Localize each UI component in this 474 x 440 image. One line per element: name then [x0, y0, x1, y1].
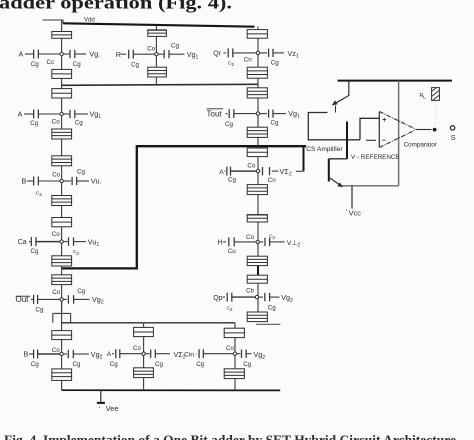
input R wire: [121, 53, 127, 55]
node island row5: [60, 298, 63, 301]
wire column-3b vertical: [234, 323, 236, 390]
input Cin wire: [196, 353, 199, 355]
svg-text:A: A: [18, 109, 23, 118]
wire R-cap to node: [134, 53, 155, 55]
svg-text:Co: Co: [246, 234, 254, 241]
tunnel junction J21: [247, 256, 267, 265]
tunnel junction J16: [247, 88, 267, 98]
node island col2b: [142, 352, 145, 355]
tunnel junction J25: [134, 368, 154, 378]
svg-text:B: B: [24, 350, 29, 359]
svg-text:CS Amplifier: CS Amplifier: [306, 146, 343, 153]
ground rail (bottom): [62, 389, 281, 391]
input Ca (row4) wire: [29, 241, 31, 243]
Vee supply symbol: [100, 390, 102, 402]
node island H: [256, 240, 259, 243]
wire to Vg2 col4: [270, 296, 280, 298]
svg-text:H: H: [218, 240, 223, 247]
tunnel junction J4: [52, 129, 72, 139]
tunnel junction J7: [52, 218, 72, 227]
svg-text:Cg: Cg: [271, 59, 279, 66]
svg-text:L: L: [423, 94, 426, 100]
capacitor Cg (A bottom): [115, 349, 117, 358]
tunnel junction J18: [247, 148, 267, 157]
svg-text:Cg: Cg: [73, 61, 81, 68]
wire to node col2b: [120, 353, 142, 355]
svg-text:Vcc: Vcc: [349, 209, 362, 218]
svg-text:2: 2: [231, 62, 234, 68]
svg-text:Co: Co: [52, 171, 60, 178]
transistor M1 arrow: [333, 96, 349, 105]
tunnel junction J9: [52, 275, 72, 285]
svg-text:Comparator: Comparator: [404, 142, 437, 149]
wire to Vg row1: [75, 53, 86, 55]
wire M2 drain (thick): [328, 159, 330, 182]
input B (row3) wire: [27, 180, 33, 182]
svg-text:Qr: Qr: [213, 51, 221, 58]
node island Qp: [255, 295, 258, 298]
wire to node row5: [38, 298, 60, 300]
capacitor Cg (A row2): [33, 110, 35, 119]
svg-text:A: A: [107, 351, 112, 358]
input A (mid) wire: [225, 170, 226, 172]
tunnel junction J8: [52, 256, 72, 266]
capacitor Cg (A row1): [33, 50, 35, 59]
tunnel junction J11: [52, 369, 72, 381]
wire to Vg2 row6: [73, 353, 89, 355]
svg-text:Qp: Qp: [213, 295, 222, 302]
svg-text:Vu.: Vu.: [91, 177, 102, 186]
svg-text:2: 2: [76, 251, 79, 257]
svg-text:Cb: Cb: [246, 287, 254, 294]
capacitor C2 (B row3): [33, 177, 35, 186]
capacitor Cg (Vg2 col4): [259, 296, 263, 298]
wire to Vz1: [273, 52, 284, 54]
wire to Vp2: [270, 241, 285, 243]
tunnel junction J13: [148, 67, 167, 77]
tunnel junction J12: [148, 30, 167, 37]
svg-text:S: S: [451, 133, 456, 142]
tunnel junction J3: [52, 89, 72, 98]
wire to node row1: [38, 53, 59, 55]
svg-text:2: 2: [39, 192, 42, 198]
svg-text:Co: Co: [52, 347, 60, 354]
wire M2 source to right: [342, 185, 399, 187]
tunnel junction J5: [52, 156, 72, 166]
wire to Vg1 col2: [169, 53, 185, 55]
wire to node col3b: [204, 353, 234, 355]
tunnel junction J6: [52, 196, 72, 206]
Vdd rail (right): [338, 80, 453, 82]
input Out-bar (row5) wire: [31, 298, 33, 300]
capacitor Cg (Vsum2): [145, 353, 149, 355]
wire to node row4 (bold): [36, 241, 60, 243]
transistor M2 arrow: [330, 178, 342, 187]
capacitor C2 (Vd1 row4): [63, 241, 67, 243]
svg-text:2: 2: [272, 235, 275, 241]
svg-text:Cn: Cn: [244, 56, 252, 63]
wire to node row2: [38, 113, 59, 115]
comparator minus stub: [366, 139, 376, 141]
svg-text:Cg: Cg: [77, 288, 85, 295]
capacitor Cg (Vz1): [260, 52, 267, 54]
capacitor Cg (B row6): [33, 350, 35, 359]
svg-text:Co: Co: [147, 45, 155, 52]
wire comparator plus input: [360, 118, 379, 140]
wire to Vg2 col3b: [246, 353, 251, 355]
capacitor Cg (Vg row1): [63, 53, 69, 55]
capacitor Cg (Vg2 row5): [63, 298, 67, 300]
wire to Vsum2: [156, 353, 171, 355]
svg-text:adder operation (Fig. 4).: adder operation (Fig. 4).: [0, 0, 232, 14]
wire rail y85: [62, 84, 258, 85]
svg-text:Cg: Cg: [31, 248, 39, 255]
svg-text:−: −: [382, 138, 386, 145]
svg-text:Co: Co: [133, 345, 141, 352]
wire Vsum tap to CS amp: [303, 147, 305, 172]
svg-text:V - REFERENCE: V - REFERENCE: [351, 154, 400, 161]
capacitor C2 (Vp2): [260, 241, 264, 243]
capacitor Cg (Vd row3): [63, 180, 71, 182]
input A (row1) wire: [25, 53, 33, 55]
svg-text:Cin: Cin: [184, 352, 194, 359]
Vcc stub: [351, 186, 353, 209]
capacitor Cg (A mid): [226, 167, 228, 176]
wire to Vg2 row5: [74, 298, 90, 300]
svg-text:Cg: Cg: [75, 120, 83, 127]
capacitor Cg (Out row5): [33, 295, 35, 304]
capacitor C2 (Qp): [226, 293, 228, 302]
Vdd rail: [43, 19, 64, 21]
op-amp comparator U1: [378, 112, 380, 148]
input B (row6) wire: [29, 353, 33, 355]
svg-text:A: A: [19, 49, 24, 58]
capacitor Cg (Vg1 row2): [63, 113, 69, 115]
input Qr wire: [224, 52, 227, 54]
wire to Vg1 row2: [75, 113, 88, 115]
svg-text:Fig. 4. Implementation of a O: Fig. 4. Implementation of a One Bit adde…: [4, 434, 456, 440]
node island row6: [60, 352, 63, 355]
capacitor Cg (Tout): [228, 109, 230, 118]
wire column-1 vertical: [61, 20, 63, 390]
tunnel junction J15: [247, 67, 267, 78]
svg-text:': ': [346, 209, 347, 216]
svg-text:R: R: [116, 50, 121, 59]
tunnel junction J10: [52, 331, 72, 340]
tunnel junction J27: [224, 369, 244, 379]
node island R: [155, 53, 158, 56]
wire link horizontal: [329, 158, 347, 160]
svg-text:Cg: Cg: [131, 61, 139, 68]
svg-text:Cg: Cg: [196, 361, 204, 368]
capacitor Cg (Vd1): [260, 113, 267, 115]
wire to node A-mid (bold): [231, 170, 256, 172]
node output dot: [433, 128, 437, 132]
svg-text:Cg: Cg: [77, 169, 85, 176]
svg-text:Co: Co: [52, 289, 60, 296]
svg-text:Cg: Cg: [155, 361, 163, 368]
input A (bottom) wire: [112, 353, 114, 355]
svg-text:Tout: Tout: [207, 109, 223, 118]
wire column-3 vertical: [257, 27, 259, 322]
node island Tout: [256, 112, 259, 115]
wire M1 source stub: [335, 106, 337, 113]
bracket wire under Out node: [53, 299, 71, 322]
capacitor Cg (Cin): [198, 349, 200, 358]
capacitor Cg (Vg2 row6): [63, 353, 67, 355]
wire drain M1: [348, 81, 350, 96]
wire gray stub col4 bottom: [256, 323, 280, 325]
svg-text:Cg: Cg: [225, 121, 233, 128]
svg-text:Co: Co: [226, 345, 234, 352]
tunnel junction J24: [134, 327, 154, 336]
svg-text:Co: Co: [52, 119, 60, 126]
node island row3: [60, 179, 63, 182]
wire right vertical (gray): [398, 81, 400, 186]
svg-text:Cg: Cg: [36, 306, 44, 313]
wire to node Tout: [234, 113, 256, 115]
svg-text:Vg.: Vg.: [89, 50, 100, 59]
tunnel junction J20: [247, 215, 267, 222]
tunnel junction J17: [247, 127, 267, 137]
wire M1-M2 link (thick): [346, 122, 348, 159]
svg-text:Cu: Cu: [228, 248, 236, 255]
svg-text:Cg: Cg: [271, 120, 279, 127]
tunnel junction J22: [247, 275, 267, 283]
svg-text:Vee: Vee: [106, 404, 119, 413]
wire column-2b vertical: [143, 323, 145, 390]
wire to node Qr: [233, 52, 256, 54]
tunnel junction J14: [247, 30, 267, 39]
input Tout-bar wire: [226, 113, 228, 115]
svg-text:Cg: Cg: [30, 120, 38, 127]
capacitor Cg (Vg2 col3b): [237, 353, 241, 355]
svg-text:-: -: [99, 404, 101, 411]
svg-text:Cc: Cc: [47, 59, 55, 66]
svg-text:Cg: Cg: [243, 361, 251, 368]
tunnel junction J19: [247, 185, 267, 195]
capacitor Cg (Vg1 col2): [158, 53, 163, 55]
tunnel junction J26: [224, 328, 244, 337]
node island row4: [60, 240, 63, 243]
capacitor Cg (H): [228, 237, 230, 246]
wire mid loop (thick): [62, 146, 307, 268]
svg-text:Ca: Ca: [18, 239, 27, 246]
wire thick junction link: [257, 266, 259, 276]
svg-text:Co: Co: [52, 231, 60, 238]
input A (row2) wire: [24, 113, 33, 115]
svg-text:Vdd: Vdd: [84, 17, 95, 23]
wire to node H: [234, 241, 255, 243]
svg-text:A: A: [219, 169, 224, 176]
svg-text:Cg: Cg: [228, 177, 236, 184]
input Qp wire: [223, 296, 226, 298]
capacitor Cg (R): [128, 50, 130, 59]
svg-text:2: 2: [230, 307, 233, 313]
svg-text:Cg: Cg: [73, 361, 81, 368]
svg-text:+: +: [382, 117, 386, 124]
svg-text:Cg: Cg: [31, 361, 39, 368]
wire CS amp gate box: [308, 113, 360, 140]
input H wire: [223, 241, 226, 243]
capacitor Cg (Vsum): [259, 170, 262, 172]
capacitor Cg (Ca row4): [30, 237, 32, 246]
svg-text:Cn: Cn: [268, 177, 276, 184]
dotted wire RL to output: [435, 101, 437, 126]
node island Qr: [256, 51, 259, 54]
wire comparator output: [417, 129, 432, 131]
tunnel junction J23: [247, 312, 267, 322]
wire column-2 vertical: [155, 26, 157, 85]
node island row2: [60, 112, 63, 115]
wire to node row3: [38, 180, 59, 182]
tunnel junction J1: [52, 32, 72, 39]
output terminal S: [450, 126, 454, 130]
svg-text:Cg: Cg: [110, 361, 118, 368]
wire to node Qp (bold): [232, 296, 255, 298]
svg-text:Cg: Cg: [268, 304, 276, 311]
wire to Vd1 row4: [74, 241, 86, 243]
svg-text:Co: Co: [247, 163, 255, 170]
node island col3b: [233, 352, 236, 355]
wire to Vd1: [273, 113, 286, 115]
svg-text:Cg: Cg: [171, 43, 179, 50]
svg-text:B: B: [22, 176, 27, 185]
node island row1: [60, 52, 63, 55]
svg-text:Cg: Cg: [31, 61, 39, 68]
tunnel junction J2: [52, 69, 72, 78]
wire to Vd row3: [77, 180, 89, 182]
wire bottom-row top bus y323: [62, 322, 235, 324]
wire to Vsum: [272, 170, 279, 172]
node island A-mid: [256, 169, 259, 172]
wire to node row6 (bold): [38, 353, 60, 355]
capacitor C2 (Qr): [227, 48, 229, 57]
